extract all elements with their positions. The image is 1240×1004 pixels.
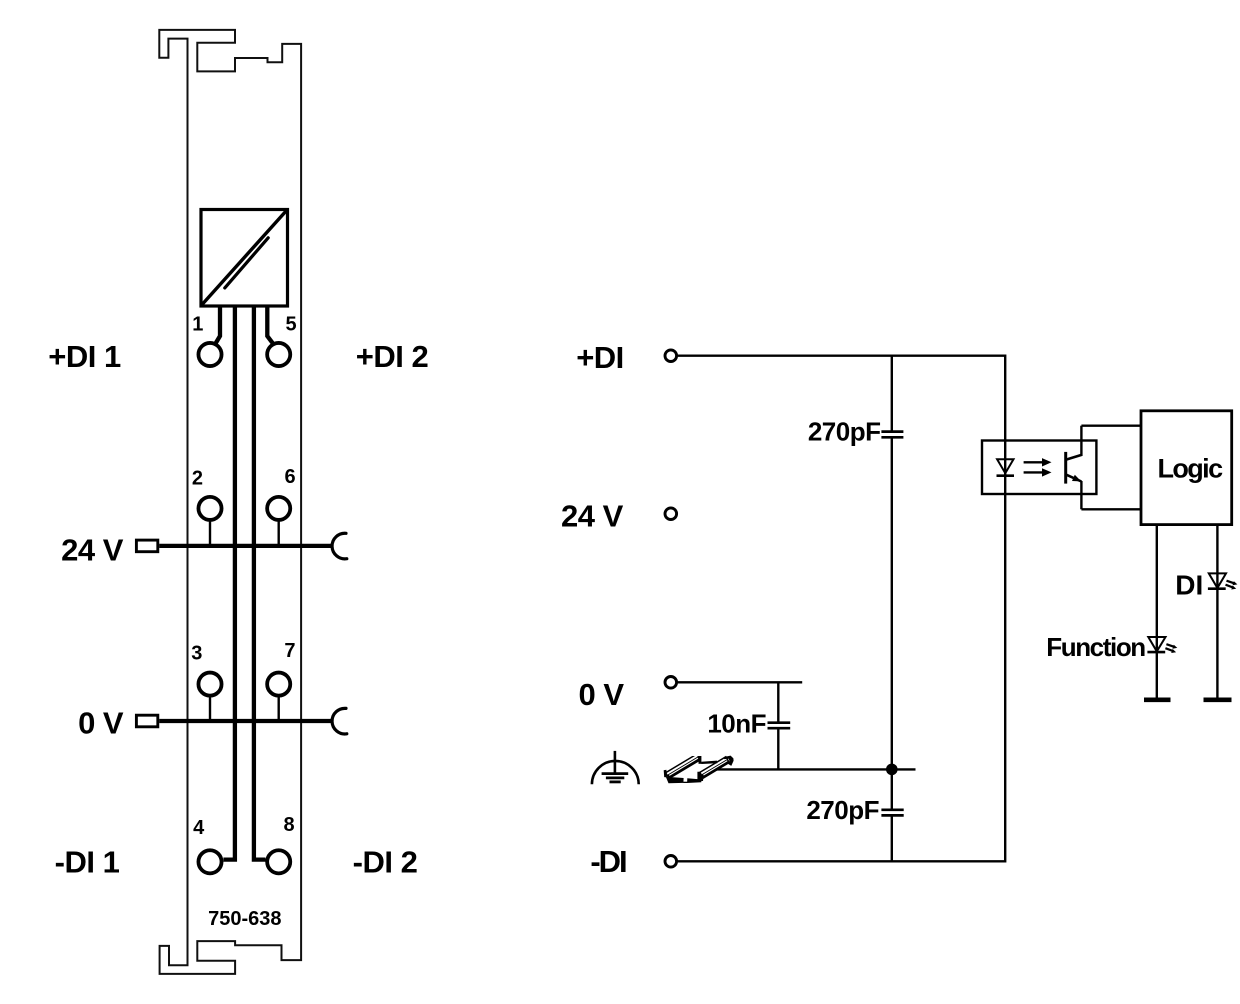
capacitor C3 10nF plates bbox=[768, 721, 791, 724]
svg-text:0 V: 0 V bbox=[78, 706, 124, 741]
svg-text:3: 3 bbox=[191, 643, 202, 665]
counter symbol U1 (square with diagonals) bbox=[201, 210, 288, 307]
ground bus line bbox=[714, 768, 916, 770]
pin 6 circle bbox=[267, 497, 290, 520]
svg-text:-DI: -DI bbox=[590, 844, 626, 879]
svg-text:+DI 1: +DI 1 bbox=[48, 339, 121, 374]
pin 8 circle bbox=[267, 850, 290, 873]
svg-text:+DI: +DI bbox=[576, 340, 624, 375]
wire 10nF branch (vertical B) bbox=[777, 682, 779, 722]
svg-text:+DI 2: +DI 2 bbox=[356, 339, 428, 374]
terminal -DI circle bbox=[665, 856, 677, 868]
pin 1 circle bbox=[198, 343, 221, 366]
svg-text:24 V: 24 V bbox=[61, 532, 124, 567]
wire rail left bbox=[223, 306, 235, 860]
ground bar Function bbox=[1144, 697, 1171, 702]
LED Function bbox=[1147, 637, 1177, 653]
wire +DI / right loop / -DI bbox=[678, 356, 1005, 862]
wire Function LED bbox=[1156, 525, 1158, 700]
0V jumper contact arc bbox=[332, 708, 347, 734]
24V bus line bbox=[159, 544, 331, 548]
svg-text:4: 4 bbox=[193, 817, 205, 839]
optocoupler box bbox=[982, 441, 1096, 495]
LED DI bbox=[1208, 573, 1238, 589]
wire stub pin7 bbox=[278, 695, 280, 721]
capacitor C2 270pF plates bbox=[881, 808, 903, 811]
optocoupler LED D1 bbox=[997, 459, 1015, 475]
pin 2 circle bbox=[198, 497, 221, 520]
wire stub pin2 bbox=[209, 520, 211, 546]
svg-text:5: 5 bbox=[285, 313, 296, 335]
wire stub pin6 bbox=[278, 520, 280, 546]
svg-text:DI: DI bbox=[1175, 569, 1203, 600]
svg-text:270pF: 270pF bbox=[808, 417, 881, 447]
wire stub pin3 bbox=[209, 695, 211, 721]
terminal 24V circle bbox=[665, 508, 677, 520]
svg-text:1: 1 bbox=[192, 313, 203, 335]
terminal 0V circle bbox=[665, 677, 677, 689]
svg-text:7: 7 bbox=[284, 640, 295, 662]
wire 0V from terminal bbox=[678, 681, 802, 683]
svg-text:0 V: 0 V bbox=[578, 677, 624, 712]
pin 5 circle bbox=[267, 343, 290, 366]
wire pin1 from U1 bbox=[216, 306, 220, 344]
svg-text:24 V: 24 V bbox=[561, 499, 624, 534]
wire below C1 to dot and C2 bbox=[891, 437, 893, 809]
wire below C3 to ground line bbox=[777, 728, 779, 769]
wire emitter to logic bbox=[1081, 508, 1141, 510]
pin 3 circle bbox=[198, 673, 221, 696]
wire capacitor branch (vertical A) bbox=[891, 356, 893, 432]
junction dot bbox=[886, 764, 898, 776]
svg-text:8: 8 bbox=[283, 814, 294, 836]
svg-text:-DI 1: -DI 1 bbox=[55, 844, 120, 879]
svg-text:Function: Function bbox=[1046, 632, 1145, 662]
svg-text:10nF: 10nF bbox=[707, 709, 766, 739]
pin 7 circle bbox=[267, 673, 290, 696]
svg-text:270pF: 270pF bbox=[806, 795, 879, 825]
svg-text:-DI 2: -DI 2 bbox=[353, 844, 418, 879]
svg-text:6: 6 bbox=[284, 466, 295, 488]
capacitor C1 270pF plates bbox=[881, 430, 903, 433]
pin 4 circle bbox=[198, 850, 221, 873]
24V jumper contact arc bbox=[332, 533, 347, 559]
earth ground symbol bbox=[592, 751, 639, 784]
wire DI LED bbox=[1216, 525, 1218, 700]
svg-text:750-638: 750-638 bbox=[208, 908, 281, 930]
0V marker square bbox=[136, 715, 157, 727]
phototransistor Q1 bbox=[1066, 426, 1082, 510]
wire collector to logic bbox=[1081, 425, 1141, 427]
light arrows bbox=[1024, 458, 1052, 477]
svg-text:2: 2 bbox=[192, 467, 203, 489]
module 750-638 body outline bbox=[159, 30, 301, 974]
24V marker square bbox=[136, 540, 157, 552]
ground bar DI bbox=[1204, 697, 1232, 702]
terminal +DI circle bbox=[665, 350, 677, 362]
svg-text:Logic: Logic bbox=[1158, 453, 1224, 483]
wire rail right bbox=[254, 306, 266, 860]
wire below C2 to -DI wire bbox=[891, 815, 893, 861]
0V bus line bbox=[159, 719, 331, 723]
wire pin5 from U1 bbox=[267, 306, 273, 344]
DIN rail symbol bbox=[664, 741, 734, 794]
logic box bbox=[1141, 411, 1232, 525]
